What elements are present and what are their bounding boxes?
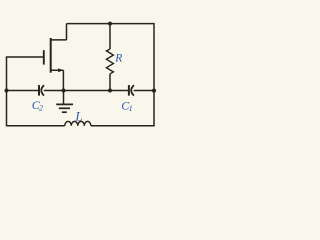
svg-text:R: R: [114, 50, 123, 64]
resistor R bottom lead: [109, 74, 111, 91]
ground stem: [63, 91, 65, 105]
svg-text:2: 2: [39, 103, 43, 112]
wire top rail: [67, 23, 155, 25]
wire gate lead: [6, 56, 44, 58]
node left rail mid junction: [5, 89, 9, 93]
wire left rail: [6, 57, 8, 126]
capacitor C1 left plate: [128, 85, 130, 96]
node top resistor junction: [108, 22, 112, 26]
wire bottom rail left segment: [7, 125, 65, 127]
inductor L humps: [65, 121, 91, 125]
wire right rail: [153, 23, 155, 126]
capacitor C2 right curved plate: [41, 85, 44, 95]
ground bar 2: [59, 107, 70, 109]
wire drain lead: [51, 24, 67, 40]
capacitor C2 left plate: [38, 85, 40, 96]
node source ground junction: [61, 88, 65, 92]
transistor Q1 source arrow: [58, 68, 63, 72]
wire mid rail right of C1: [134, 90, 154, 92]
ground bar 1: [56, 103, 73, 105]
svg-text:L: L: [74, 109, 82, 124]
wire mid rail C2 to C1: [44, 90, 128, 92]
ground bar 3: [62, 111, 67, 113]
svg-text:1: 1: [129, 104, 133, 113]
resistor R zigzag: [106, 49, 113, 74]
transistor Q1 channel bar: [50, 38, 52, 73]
resistor R top lead: [109, 24, 111, 49]
node resistor bottom junction: [108, 89, 112, 93]
wire source lead: [51, 70, 64, 90]
wire bottom rail right segment: [91, 125, 155, 127]
transistor Q1 gate bar: [43, 50, 45, 64]
wire mid rail left of C2: [7, 90, 39, 92]
node right rail mid junction: [152, 89, 156, 93]
capacitor C1 right curved plate: [131, 85, 134, 95]
